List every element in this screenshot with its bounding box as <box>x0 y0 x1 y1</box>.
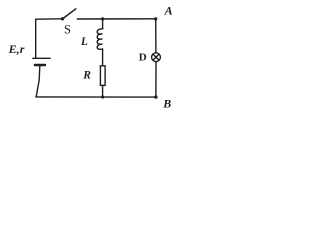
switch S left contact dot <box>61 17 64 20</box>
svg-text:L: L <box>80 36 88 48</box>
wire node A down to lamp <box>155 19 157 53</box>
svg-text:r: r <box>20 42 25 56</box>
lamp D cross stroke 2 <box>153 54 159 60</box>
wire resistor to bottom junction <box>102 85 104 97</box>
junction dot top of middle branch <box>101 17 104 20</box>
lamp D circle <box>152 53 161 62</box>
junction dot bottom of middle branch <box>101 95 104 98</box>
wire left side vertical (to battery) <box>35 19 37 57</box>
wire top-left horizontal segment <box>36 18 63 20</box>
lamp D cross stroke 1 <box>153 54 159 60</box>
battery E,r long plate <box>33 57 50 59</box>
node A dot <box>154 17 157 20</box>
svg-text:A: A <box>164 4 173 18</box>
svg-text:S: S <box>64 23 71 37</box>
wire top segment switch to node A <box>77 18 155 20</box>
wire junction down to inductor <box>102 19 104 29</box>
battery E,r short thick plate <box>35 64 45 66</box>
wire lamp to node B <box>155 62 157 98</box>
svg-text:E,: E, <box>8 42 20 56</box>
wire battery to bottom-left corner <box>36 66 40 97</box>
svg-text:D: D <box>139 51 147 63</box>
svg-text:B: B <box>162 96 171 110</box>
wire inductor to resistor <box>102 49 104 66</box>
node B dot <box>154 95 157 98</box>
switch S blade (open) <box>63 9 76 19</box>
svg-text:R: R <box>82 69 91 81</box>
resistor R box <box>100 66 105 86</box>
wire bottom horizontal <box>36 96 156 98</box>
inductor L coil <box>97 29 103 49</box>
